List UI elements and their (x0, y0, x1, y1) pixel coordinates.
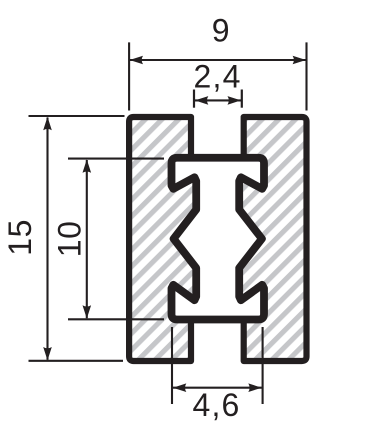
dimension 4,6: arrow right (248, 383, 261, 392)
dimension 9: arrow left (130, 56, 143, 65)
dimension 2,4: tick left (193, 90, 195, 108)
extension line 10 bottom (68, 318, 164, 320)
svg-text:2,4: 2,4 (194, 59, 242, 95)
dimension 9: arrow right (293, 56, 306, 65)
extension line 4,6 left (171, 327, 173, 404)
cavity left vertex spike (170, 236, 177, 242)
dimension 9: dimension line (130, 59, 306, 61)
dimension 2,4: arrow right (228, 96, 241, 105)
dimension 15: dimension line (46, 118, 48, 360)
profile body (hatched material with top and bottom slots) (129, 117, 306, 361)
svg-text:4,6: 4,6 (192, 387, 240, 423)
dimension 15: arrow down (43, 347, 52, 360)
cavity right vertex spike (259, 236, 266, 242)
svg-text:10: 10 (51, 221, 87, 258)
dimension 2,4: tick right (241, 90, 243, 108)
dimension 4,6: dimension line (173, 387, 262, 389)
extension line 10 top (68, 158, 164, 160)
dimension 15: extension line bottom (29, 360, 124, 362)
dimension 9: extension line left (128, 42, 130, 110)
svg-text:9: 9 (212, 12, 230, 48)
dimension 15: extension line top (29, 115, 125, 117)
dimension 2,4: arrow left (195, 96, 208, 105)
extension line 4,6 right (262, 327, 264, 404)
dimension 10: arrow up (83, 159, 92, 172)
dimension 4,6: arrow left (173, 383, 186, 392)
dimension 15: arrow up (43, 117, 52, 130)
dimension 10: arrow down (83, 305, 92, 318)
svg-text:15: 15 (2, 219, 38, 256)
dimension 2,4: dimension line (195, 99, 242, 101)
dimension 10: dimension line (86, 160, 88, 318)
dimension 9: extension line right (305, 42, 307, 110)
central cavity with retaining teeth (172, 158, 265, 320)
